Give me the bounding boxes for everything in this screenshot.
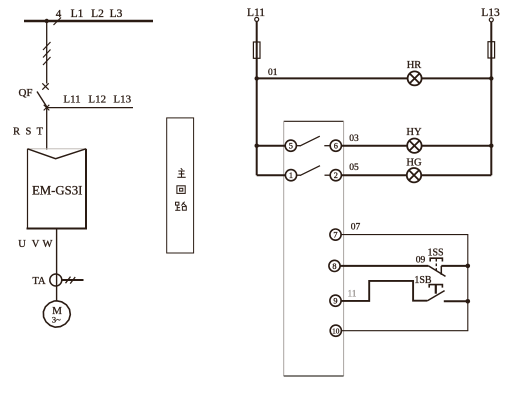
svg-text:10: 10: [332, 327, 340, 336]
svg-text:EM-GS3I: EM-GS3I: [32, 184, 82, 198]
svg-text:L13: L13: [481, 7, 500, 19]
breaker QF blade: [37, 92, 47, 108]
terminal 2: [330, 170, 341, 181]
wire drop from bus: [46, 21, 48, 84]
svg-text:8: 8: [332, 262, 336, 271]
svg-text:L3: L3: [110, 8, 123, 20]
node 01 junction left: [255, 76, 259, 80]
svg-text:L11: L11: [63, 93, 80, 105]
terminal 5: [285, 140, 296, 151]
wire 05 right: [421, 174, 491, 176]
three-phase slashes: [43, 42, 51, 65]
svg-text:T: T: [37, 126, 44, 137]
terminal 8: [329, 260, 340, 271]
main-circuit label box: [167, 118, 194, 253]
bus L1L2L3: [24, 20, 153, 22]
svg-text:HR: HR: [407, 60, 422, 71]
contact blade 1-2: [296, 174, 300, 176]
svg-text:U: U: [18, 239, 26, 250]
wire 05: [341, 174, 407, 176]
inverter U1 EM-GS3I box: [28, 148, 87, 150]
wire-count slash: [54, 18, 62, 26]
svg-text:07: 07: [351, 222, 361, 232]
fuse FU2: [488, 42, 495, 58]
wire inverter to motor: [56, 229, 58, 302]
wire to terminal 5: [257, 145, 286, 147]
wire L11 drop: [256, 22, 258, 176]
fuse FU1: [253, 42, 260, 58]
lamp HG: [407, 168, 421, 182]
terminal 7: [330, 229, 341, 240]
node rail junction 1: [466, 264, 471, 269]
svg-text:01: 01: [268, 68, 278, 78]
wire 07: [341, 234, 469, 236]
contact blade 5-6: [296, 145, 300, 147]
node rail junction 2: [466, 299, 471, 304]
svg-text:05: 05: [349, 163, 359, 173]
glyph lu: [175, 202, 186, 211]
terminal 9: [330, 295, 341, 306]
wire L13 drop: [490, 22, 492, 175]
pushbutton 1SB (NO): [429, 285, 442, 288]
wire 01: [257, 77, 408, 79]
svg-text:W: W: [43, 239, 53, 250]
terminal 10: [330, 325, 341, 336]
svg-text:HG: HG: [406, 157, 422, 168]
svg-text:V: V: [32, 239, 40, 250]
node 01 junction right: [489, 76, 493, 80]
node 03 junction right: [489, 144, 493, 148]
wire 01 right: [422, 77, 492, 79]
svg-text:6: 6: [334, 142, 338, 151]
wire L11-L13 horizontal: [47, 107, 133, 109]
node bus junction: [45, 19, 49, 23]
terminal 1: [285, 170, 296, 181]
svg-text:S: S: [25, 126, 31, 137]
svg-text:2: 2: [334, 171, 338, 180]
svg-text:L12: L12: [88, 93, 106, 105]
wire right rail: [467, 235, 469, 331]
node corner X: [44, 105, 50, 111]
svg-text:L2: L2: [91, 8, 104, 20]
wire 11 step: [341, 281, 427, 301]
lamp HR: [408, 71, 422, 85]
wire to terminal 1: [257, 174, 286, 176]
lamp HY: [407, 139, 421, 153]
svg-text:11: 11: [348, 289, 357, 299]
wire 03: [341, 145, 407, 147]
svg-text:9: 9: [333, 297, 337, 306]
svg-text:7: 7: [333, 231, 337, 240]
wire 10: [341, 330, 468, 332]
svg-text:09: 09: [416, 255, 426, 265]
glyph zhu: [177, 168, 185, 177]
svg-text:1: 1: [289, 171, 293, 180]
CT TA: [50, 274, 62, 286]
controller box: [284, 120, 344, 122]
terminal 6: [330, 140, 341, 151]
svg-text:03: 03: [349, 134, 359, 144]
glyph hui: [177, 186, 185, 194]
svg-text:3~: 3~: [52, 315, 61, 325]
pushbutton 1SS (NC): [430, 258, 442, 261]
motor M: [43, 301, 70, 327]
svg-text:R: R: [13, 126, 20, 137]
wire into inverter: [46, 108, 48, 150]
wire 03 right: [422, 145, 492, 147]
node junction left row3: [255, 144, 259, 148]
svg-text:L13: L13: [113, 93, 131, 105]
svg-text:HY: HY: [406, 127, 422, 138]
svg-text:5: 5: [289, 142, 293, 151]
wire 09: [340, 265, 429, 267]
svg-text:1SS: 1SS: [427, 247, 443, 258]
svg-text:TA: TA: [32, 276, 46, 287]
breaker QF fixed contact X: [42, 83, 48, 89]
svg-text:L1: L1: [71, 8, 84, 20]
svg-text:QF: QF: [18, 87, 32, 99]
